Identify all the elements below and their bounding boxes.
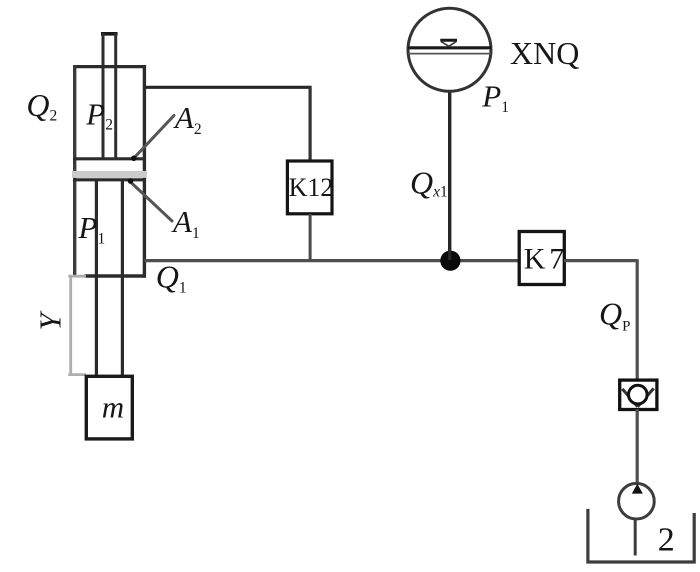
- pump: [619, 483, 655, 519]
- accumulator XNQ: [408, 8, 491, 91]
- svg-text:K12: K12: [289, 173, 334, 202]
- svg-text:Q2: Q2: [26, 87, 57, 125]
- valve K12 box: [287, 161, 332, 214]
- svg-text:P1: P1: [78, 210, 106, 248]
- wire pump to tank: [634, 518, 637, 556]
- svg-text:2: 2: [658, 521, 675, 558]
- svg-text:m: m: [102, 389, 124, 424]
- svg-text:QP: QP: [599, 296, 630, 335]
- svg-text:Y: Y: [33, 311, 68, 331]
- svg-text:Qx1: Qx1: [410, 165, 448, 201]
- cylinder body: [73, 65, 146, 278]
- piston: [72, 159, 147, 180]
- wire check valve to pump: [636, 409, 639, 484]
- wire cylinder to K12: [144, 86, 310, 160]
- cylinder bottom: [85, 274, 147, 277]
- cylinder upper rod: [101, 33, 118, 158]
- wire node to accumulator: [448, 92, 451, 261]
- tank: [588, 509, 694, 562]
- svg-text:P2: P2: [85, 97, 113, 134]
- wire K7 to check valve: [564, 259, 637, 380]
- wire bus Q1: [144, 259, 519, 262]
- check valve symbol: [622, 385, 653, 406]
- svg-text:Q1: Q1: [156, 259, 187, 297]
- valve K7 box: [519, 232, 564, 285]
- wire K12 to bus: [309, 214, 312, 262]
- svg-text:P1: P1: [481, 78, 509, 116]
- svg-text:K7: K7: [524, 243, 564, 276]
- mass box m: [86, 376, 132, 439]
- svg-text:A2: A2: [173, 100, 202, 138]
- svg-text:A1: A1: [171, 204, 200, 242]
- pointer line A1: [128, 178, 172, 221]
- piston rod lower: [96, 181, 122, 376]
- Y measurement bracket: [68, 276, 86, 374]
- pointer line A2: [131, 116, 174, 162]
- check valve box: [620, 380, 657, 409]
- node junction: [440, 251, 460, 271]
- svg-text:XNQ: XNQ: [510, 35, 579, 71]
